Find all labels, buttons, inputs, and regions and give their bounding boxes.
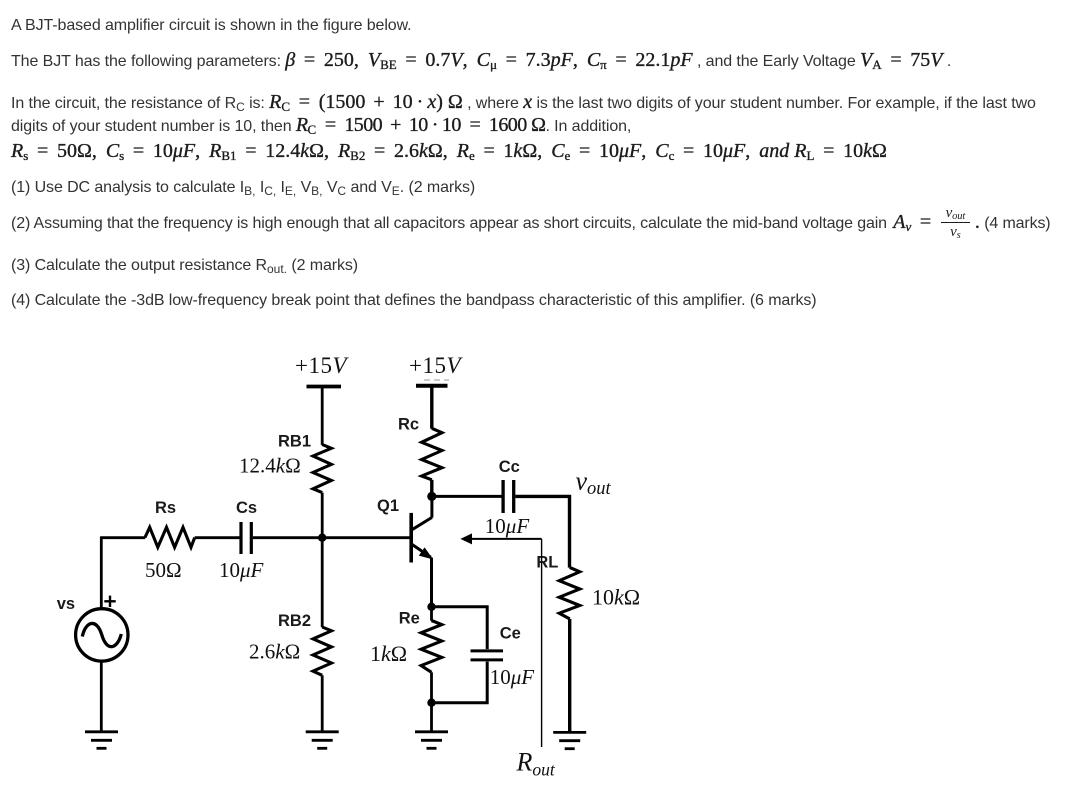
wire: RB1 bottom to base node xyxy=(321,493,324,538)
svg-text:Rs: Rs xyxy=(155,499,176,517)
svg-text:1kΩ: 1kΩ xyxy=(370,641,407,666)
ground (Re) xyxy=(415,732,448,749)
wire: input corner to Rs xyxy=(101,536,145,539)
svg-text:RL: RL xyxy=(536,554,558,572)
resistor Rs xyxy=(145,527,195,547)
vs + polarity mark xyxy=(104,596,115,607)
svg-text:νout: νout xyxy=(576,467,612,500)
svg-text:2.6kΩ: 2.6kΩ xyxy=(249,640,300,664)
svg-text:vs: vs xyxy=(57,595,75,613)
wire: Cc to vout corner and down to RL xyxy=(515,496,569,567)
svg-text:10μF: 10μF xyxy=(219,558,264,582)
wire: collector lead xyxy=(430,496,433,517)
capacitor Cs xyxy=(241,522,251,554)
svg-text:+15V: +15V xyxy=(295,353,349,378)
svg-text:Re: Re xyxy=(399,610,420,628)
wire: corner down to vs source xyxy=(100,536,103,609)
node: base junction B xyxy=(318,534,326,542)
Rout measurement arrow xyxy=(460,533,541,747)
ground (RL) xyxy=(553,732,586,748)
problem text xyxy=(11,14,412,37)
wire: +15V rail to Rc top xyxy=(430,386,433,429)
svg-text:50Ω: 50Ω xyxy=(145,558,182,582)
capacitor Ce xyxy=(471,651,504,660)
transistor Q1 xyxy=(411,513,433,563)
svg-text:Rout: Rout xyxy=(516,748,556,780)
wire: collector node to Cc xyxy=(432,495,502,498)
resistor RB2 xyxy=(313,627,332,675)
ground (vs) xyxy=(85,732,118,749)
svg-text:+15V: +15V xyxy=(409,353,463,378)
wire: Rc bottom to collector node xyxy=(430,480,433,497)
node: Re bottom junction xyxy=(427,699,435,707)
capacitor Cc xyxy=(503,480,514,513)
wire: base node to RB2 top xyxy=(321,538,324,628)
wire: RB2 bottom to ground xyxy=(321,675,324,731)
wire: vs bottom to ground xyxy=(100,661,103,731)
svg-text:Ce: Ce xyxy=(500,625,521,643)
wire: +15V rail to RB1 top xyxy=(321,387,324,445)
svg-text:10kΩ: 10kΩ xyxy=(592,585,640,610)
ground (RB2) xyxy=(306,732,339,749)
wire: RL bottom to ground xyxy=(568,619,571,732)
svg-text:Q1: Q1 xyxy=(377,497,399,515)
wire: Ce bottom to Re bottom node xyxy=(432,662,488,703)
svg-text:10μF: 10μF xyxy=(485,514,530,538)
svg-text:RB1: RB1 xyxy=(278,433,311,451)
resistor RL xyxy=(559,567,580,619)
wire: base bus (Cs to Q1 base) xyxy=(253,536,410,539)
svg-text:Cc: Cc xyxy=(499,458,520,476)
power rail bar +15V (Rc) xyxy=(416,380,449,386)
wire: emitter node to Re xyxy=(430,607,433,621)
circuit schematic figure xyxy=(0,330,700,786)
resistor RB1 xyxy=(313,445,331,493)
node: emitter E xyxy=(427,603,435,611)
source vs (sine source circle) xyxy=(76,609,128,661)
resistor Re xyxy=(421,621,442,673)
wire: emitter lead down xyxy=(430,558,433,607)
resistor Rc xyxy=(422,428,442,480)
svg-text:10μF: 10μF xyxy=(490,665,535,689)
wire: Re bottom node to ground xyxy=(430,703,433,732)
wire: Rs to Cs xyxy=(195,536,240,539)
power rail bar +15V (RB1) xyxy=(307,385,342,389)
wire: Re bottom to ground node xyxy=(430,672,433,702)
svg-text:Rc: Rc xyxy=(398,416,419,434)
svg-text:12.4kΩ: 12.4kΩ xyxy=(239,454,301,478)
wire: emitter node to Ce top xyxy=(432,607,488,649)
node: collector C xyxy=(427,492,436,501)
svg-text:Cs: Cs xyxy=(236,499,257,517)
svg-text:RB2: RB2 xyxy=(278,612,311,630)
